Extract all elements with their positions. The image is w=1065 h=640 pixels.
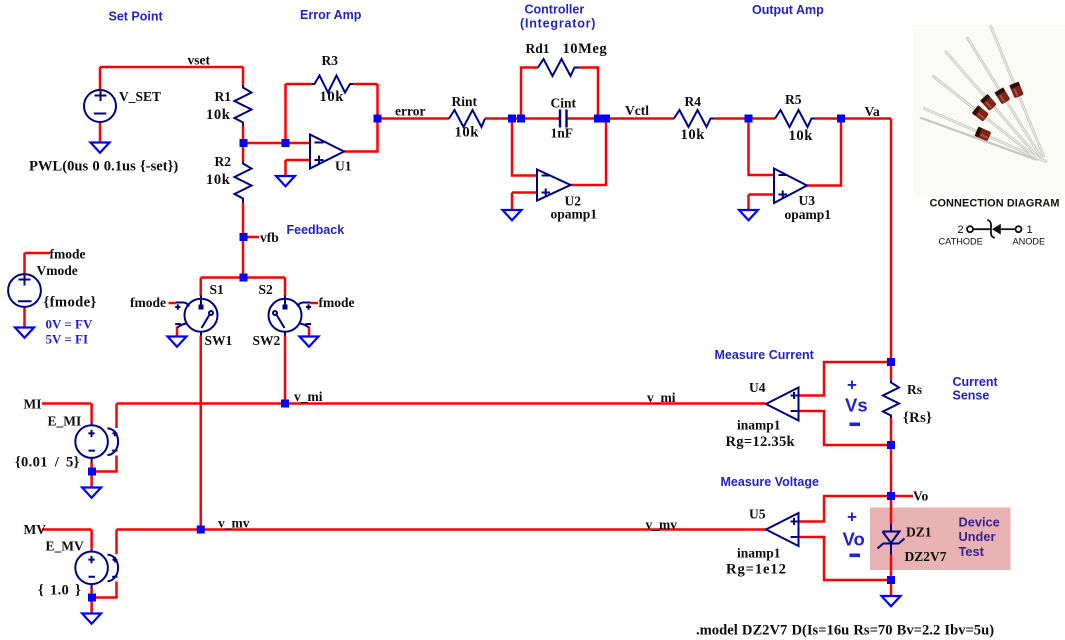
- wire R1 top lead: [242, 67, 245, 85]
- resistor Rint: [449, 110, 485, 127]
- svg-text:(Integrator): (Integrator): [520, 17, 596, 31]
- ground S1: [168, 337, 187, 347]
- ground main output: [882, 596, 901, 606]
- svg-text:Current: Current: [953, 375, 999, 389]
- node E_MV output: [88, 594, 96, 602]
- node error: [374, 115, 382, 123]
- diode body 1: [1009, 82, 1024, 99]
- svg-text:ANODE: ANODE: [1013, 237, 1046, 247]
- resistor R2: [235, 161, 252, 203]
- node Rs top: [887, 358, 895, 366]
- diode body 3: [980, 94, 997, 111]
- wire U3 plus to ground: [747, 195, 750, 211]
- wire R2 top lead: [242, 143, 245, 161]
- wire S1 top drop: [200, 278, 203, 297]
- svg-text:Under: Under: [959, 529, 996, 544]
- resistor R4: [674, 110, 714, 127]
- node junction U1 minus: [282, 139, 290, 147]
- svg-text:Vctl: Vctl: [625, 103, 649, 118]
- wire U3 output: [807, 119, 841, 186]
- wire U2 output: [571, 119, 607, 186]
- wire U3 plus input: [749, 193, 775, 196]
- wire E_MV bottom to ground: [90, 588, 93, 614]
- wire U1 plus to ground: [284, 160, 287, 176]
- DUT highlight box: [870, 508, 1011, 571]
- resistor R1: [235, 85, 252, 126]
- svg-text:10k: 10k: [206, 107, 231, 123]
- wire S1 long drop to v_mv: [200, 336, 203, 530]
- wire Rs bottom to Vo: [890, 418, 893, 496]
- wire MV lead: [42, 530, 92, 549]
- wire Va vertical down to Rs: [890, 119, 893, 381]
- photo of zener diodes: [913, 25, 1065, 197]
- wire R5 right lead to Va: [815, 117, 891, 120]
- node vfb: [240, 233, 248, 241]
- svg-text:S2: S2: [259, 282, 274, 297]
- op-amp U2: [537, 170, 571, 201]
- wire vset rail: [100, 66, 243, 69]
- svg-text:Sense: Sense: [953, 389, 990, 403]
- wire S2 top drop: [284, 278, 287, 297]
- svg-text:Measure Voltage: Measure Voltage: [721, 475, 819, 489]
- wire E_MI bottom to ground: [90, 462, 93, 488]
- svg-text:1nF: 1nF: [551, 126, 574, 141]
- svg-text:MI: MI: [24, 397, 42, 412]
- ground U1: [276, 176, 295, 186]
- wire R3 right vertical: [376, 84, 379, 119]
- svg-text:V_SET: V_SET: [119, 89, 161, 104]
- svg-text:SW2: SW2: [253, 333, 281, 348]
- resistor Rs: [883, 380, 899, 418]
- svg-text:10k: 10k: [455, 125, 480, 141]
- svg-text:vset: vset: [188, 53, 211, 68]
- ground U3: [739, 210, 758, 220]
- svg-text:10Meg: 10Meg: [563, 41, 608, 57]
- op-amp U3: [774, 169, 807, 204]
- svg-text:S1: S1: [210, 282, 225, 297]
- svg-text:Test: Test: [959, 544, 985, 559]
- dependent source E_MV: [75, 549, 118, 589]
- svg-text:Vmode: Vmode: [37, 263, 78, 278]
- node E_MI output: [88, 468, 96, 476]
- wire U1 output: [344, 119, 378, 152]
- node integrator output left: [594, 115, 602, 123]
- svg-text:CATHODE: CATHODE: [939, 237, 983, 247]
- svg-text:10k: 10k: [789, 128, 814, 144]
- wire Rd1 right vertical: [579, 68, 598, 119]
- svg-text:Rint: Rint: [452, 94, 478, 109]
- wire error rail: [378, 117, 450, 120]
- wire Rd1 left vertical: [521, 68, 538, 119]
- wire U1 plus input: [286, 159, 311, 162]
- wire node A horizontal to U1 minus: [243, 142, 310, 145]
- node integrator output right: [602, 115, 610, 123]
- wire R4 right lead to node: [714, 117, 775, 120]
- wire Vo stub: [891, 495, 913, 498]
- svg-text:5V = FI: 5V = FI: [46, 332, 89, 347]
- wire zener to bottom junction: [890, 555, 893, 597]
- svg-text:10k: 10k: [681, 127, 706, 143]
- diode body 2: [995, 87, 1011, 104]
- resistor Rd1: [538, 59, 579, 76]
- svg-text:v_mi: v_mi: [647, 390, 676, 405]
- wire U5 top rail: [799, 496, 892, 522]
- svg-text:U4: U4: [749, 380, 766, 395]
- svg-text:1: 1: [1027, 224, 1033, 236]
- switch S1: [175, 296, 217, 336]
- svg-text:Cint: Cint: [551, 96, 577, 111]
- svg-text:SW1: SW1: [205, 333, 233, 348]
- op-amp U1: [310, 135, 344, 169]
- svg-text:+: +: [847, 376, 857, 395]
- wire E_MV control bottom: [92, 582, 117, 598]
- svg-text:PWL(0us 0 0.1us {-set}): PWL(0us 0 0.1us {-set}): [29, 159, 178, 175]
- svg-text:Va: Va: [865, 104, 881, 119]
- node switch bus: [240, 274, 248, 282]
- svg-text:R3: R3: [322, 53, 339, 68]
- svg-text:R1: R1: [215, 89, 232, 104]
- svg-text:CONNECTION DIAGRAM: CONNECTION DIAGRAM: [930, 198, 1060, 210]
- wire R3 left vertical: [284, 84, 287, 143]
- svg-text:Rg=1e12: Rg=1e12: [726, 562, 787, 578]
- dependent source E_MI: [75, 423, 118, 463]
- svg-text:Error Amp: Error Amp: [300, 8, 362, 22]
- svg-text:R2: R2: [215, 154, 232, 169]
- svg-text:Set Point: Set Point: [109, 10, 164, 24]
- svg-text:U5: U5: [749, 507, 766, 522]
- svg-text:{ 1.0 }: { 1.0 }: [38, 583, 81, 599]
- svg-text:R5: R5: [785, 92, 802, 107]
- svg-text:Feedback: Feedback: [287, 223, 345, 237]
- svg-text:fmode: fmode: [130, 295, 166, 310]
- switch S2: [269, 296, 312, 336]
- svg-text:Vo: Vo: [843, 529, 865, 550]
- wire U2 minus vertical: [512, 119, 537, 176]
- svg-text:Measure Current: Measure Current: [715, 348, 815, 362]
- svg-text:10k: 10k: [320, 89, 345, 105]
- ground E_MV: [82, 614, 101, 624]
- svg-text:v_mv: v_mv: [646, 517, 678, 532]
- svg-text:U1: U1: [335, 159, 352, 174]
- voltage source Vmode: [8, 274, 41, 307]
- wire Vmode fmode stub: [25, 253, 51, 275]
- svg-text:{Rs}: {Rs}: [903, 410, 932, 426]
- ground U2: [503, 210, 522, 220]
- wire R2 bottom to vfb: [242, 203, 245, 238]
- wire Cint right to Vctl rail: [567, 117, 674, 120]
- svg-text:E_MV: E_MV: [46, 539, 84, 554]
- svg-text:error: error: [395, 104, 425, 119]
- svg-text:Rs: Rs: [907, 382, 922, 397]
- wire S2 control ground drop: [308, 327, 311, 337]
- wire Rint right lead: [485, 117, 559, 120]
- diode body 5: [975, 127, 992, 142]
- svg-text:inamp1: inamp1: [737, 546, 781, 561]
- wire Vo to zener: [890, 496, 893, 524]
- wire U5 bottom rail: [799, 537, 892, 580]
- svg-text:Output Amp: Output Amp: [752, 3, 824, 17]
- wire v_mv rail: [117, 528, 767, 531]
- diode body 4: [972, 105, 989, 122]
- wire U2 plus input: [512, 191, 537, 194]
- wire R3 left lead: [286, 83, 313, 86]
- node integrator input left: [508, 115, 516, 123]
- wire U3 minus vertical: [749, 119, 775, 176]
- wire vfb to switch bus: [242, 237, 245, 278]
- ground Vmode: [15, 328, 34, 338]
- svg-text:.model DZ2V7 D(Is=16u Rs=70 Bv: .model DZ2V7 D(Is=16u Rs=70 Bv=2.2 Ibv=5…: [696, 623, 994, 639]
- wire R3 right lead: [353, 83, 378, 86]
- svg-text:U3: U3: [799, 193, 816, 208]
- wire S2 control stub: [311, 302, 319, 305]
- inamp U5: [766, 513, 799, 546]
- capacitor Cint: [560, 110, 567, 128]
- wire S1 control ground drop: [176, 327, 179, 337]
- wire U2 plus to ground: [511, 193, 514, 211]
- node integrator input right: [517, 115, 525, 123]
- node Va: [837, 115, 845, 123]
- node U3 input: [745, 115, 753, 123]
- wire Vmode bottom to ground: [23, 307, 26, 328]
- node v_mi / S2: [281, 400, 289, 408]
- svg-text:v_mv: v_mv: [218, 516, 250, 531]
- node DUT bottom: [887, 576, 895, 584]
- svg-text:vfb: vfb: [260, 230, 279, 245]
- svg-text:10k: 10k: [206, 172, 231, 188]
- svg-text:E_MI: E_MI: [48, 414, 82, 429]
- wire S2 drop to v_mi: [284, 336, 287, 404]
- wire V_SET bottom to ground: [99, 122, 102, 143]
- wire vfb stub: [243, 236, 259, 239]
- svg-text:opamp1: opamp1: [785, 207, 832, 222]
- svg-text:0V = FV: 0V = FV: [46, 317, 94, 332]
- svg-text:DZ1: DZ1: [906, 525, 932, 540]
- wire R1 bottom lead: [242, 126, 245, 143]
- wire U4 top rail: [799, 362, 892, 396]
- node junction R1/R2 divider: [240, 139, 248, 147]
- wire V_SET top lead: [99, 67, 102, 90]
- inamp U4: [766, 388, 799, 421]
- svg-text:opamp1: opamp1: [551, 207, 598, 222]
- wire S1 control stub: [169, 302, 177, 305]
- node Vo: [887, 492, 895, 500]
- wire U4 bottom rail: [799, 411, 892, 445]
- wire switch bus: [201, 276, 285, 279]
- node Rs bottom: [887, 441, 895, 449]
- ground V_SET: [91, 143, 110, 153]
- svg-text:fmode: fmode: [319, 295, 355, 310]
- wire E_MV control top: [115, 530, 118, 555]
- svg-text:inamp1: inamp1: [737, 418, 781, 433]
- svg-text:Vo: Vo: [913, 489, 929, 504]
- connection diagram diode symbol: [967, 220, 1022, 238]
- svg-text:Device: Device: [959, 515, 1000, 530]
- svg-text:fmode: fmode: [50, 247, 86, 262]
- svg-text:{fmode}: {fmode}: [44, 295, 97, 311]
- svg-text:Rd1: Rd1: [526, 41, 550, 56]
- svg-text:DZ2V7: DZ2V7: [905, 549, 947, 564]
- svg-text:MV: MV: [24, 522, 47, 537]
- svg-text:{0.01 / 5}: {0.01 / 5}: [15, 455, 80, 471]
- ground E_MI: [82, 488, 101, 498]
- svg-text:+: +: [847, 508, 857, 527]
- svg-text:Rg=12.35k: Rg=12.35k: [726, 434, 796, 450]
- wire E_MI control bottom: [92, 456, 117, 472]
- svg-text:2: 2: [958, 224, 964, 236]
- wire MI lead: [42, 404, 92, 423]
- wire v_mi rail: [117, 402, 767, 405]
- zener diode DZ1: [878, 524, 905, 555]
- wire E_MI control top: [115, 404, 118, 429]
- svg-text:v_mi: v_mi: [294, 389, 323, 404]
- resistor R5: [775, 110, 815, 127]
- svg-text:R4: R4: [685, 94, 702, 109]
- svg-text:Controller: Controller: [525, 3, 585, 17]
- voltage source V_SET: [84, 90, 116, 123]
- ground S2: [300, 337, 319, 347]
- svg-text:Vs: Vs: [845, 395, 868, 416]
- node v_mv / S1: [197, 526, 205, 534]
- resistor R3: [312, 76, 353, 93]
